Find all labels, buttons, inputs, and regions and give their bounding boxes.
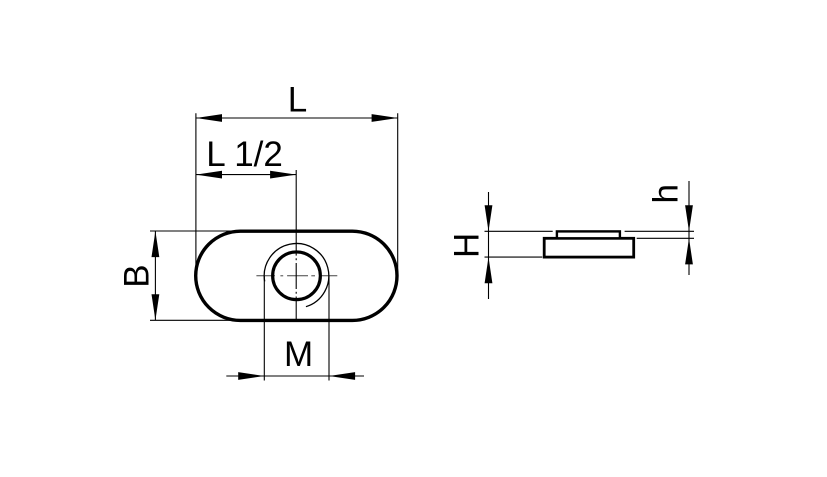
svg-text:L 1/2: L 1/2: [206, 135, 283, 174]
svg-text:L: L: [288, 80, 307, 119]
svg-text:h: h: [646, 184, 685, 203]
svg-text:M: M: [284, 335, 313, 374]
svg-text:B: B: [118, 264, 157, 287]
svg-text:H: H: [448, 233, 487, 258]
